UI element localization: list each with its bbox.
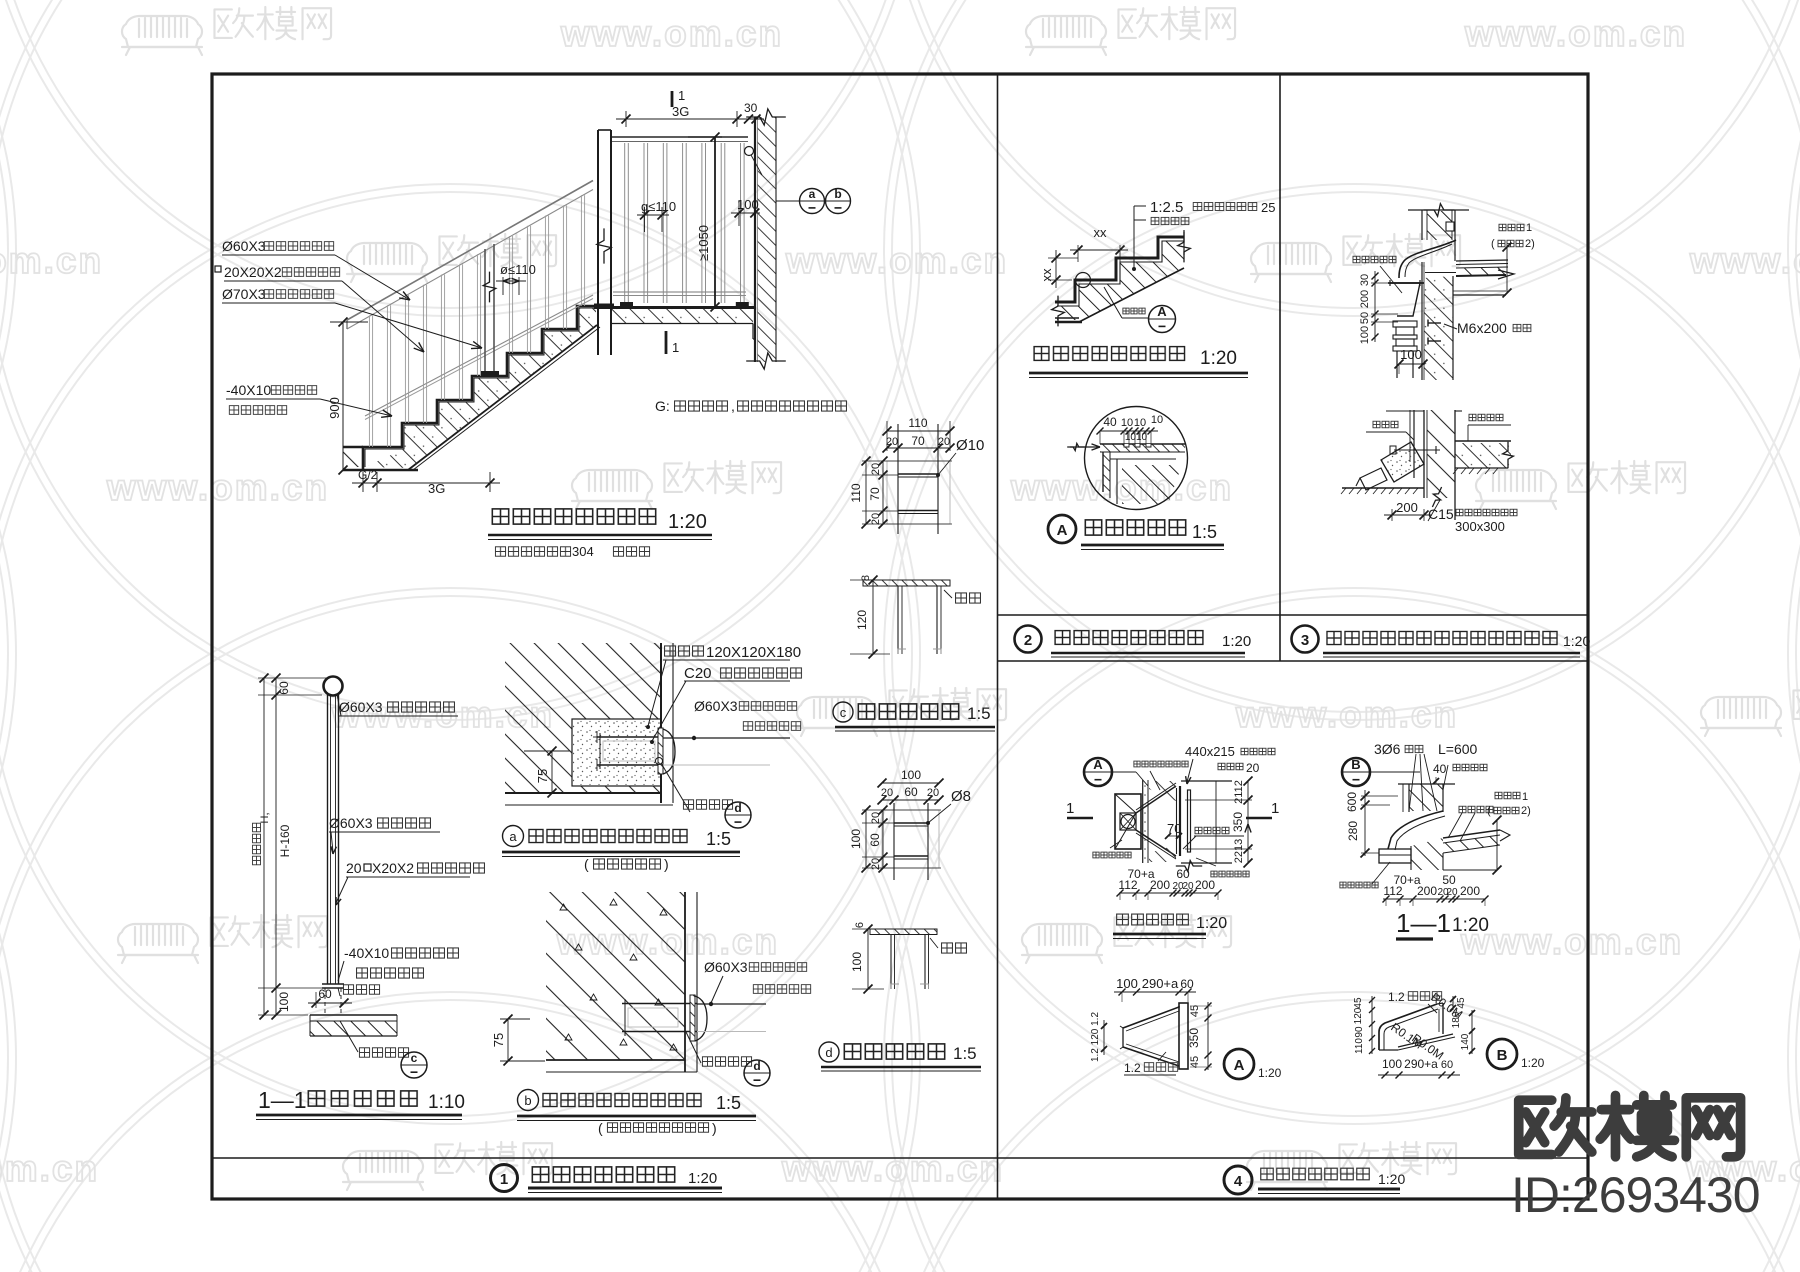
svg-text:1: 1	[1522, 791, 1528, 803]
svg-text:1.2: 1.2	[1388, 990, 1405, 1004]
svg-text:290+a: 290+a	[1142, 976, 1179, 991]
title embed detail c	[856, 701, 961, 722]
concrete marks b	[560, 904, 567, 910]
label anti-slip + bubble A	[1122, 307, 1146, 315]
label embed ref b	[686, 1032, 701, 1063]
svg-text:c: c	[840, 705, 847, 720]
svg-text:110: 110	[849, 483, 863, 502]
svg-text:Ø60X3: Ø60X3	[329, 815, 373, 831]
circle marker small	[745, 147, 754, 156]
band title 1	[491, 1165, 518, 1192]
parapet top	[1408, 209, 1469, 211]
svg-text:100: 100	[737, 197, 759, 212]
nose circle marker	[1076, 273, 1091, 288]
bubbles a b	[776, 200, 800, 202]
grate plate	[1176, 788, 1178, 854]
band title 4	[1224, 1166, 1252, 1194]
right dim chain 4	[1247, 781, 1249, 863]
bottom title band line	[212, 1157, 1588, 1159]
svg-text:1: 1	[1271, 800, 1279, 817]
svg-text:M6x200: M6x200	[1457, 320, 1507, 336]
svg-text:): )	[712, 1120, 717, 1136]
label embed ref c	[340, 1021, 358, 1052]
svg-text:200: 200	[1359, 290, 1371, 308]
svg-text:www.om.cn: www.om.cn	[1689, 240, 1800, 281]
svg-text:20: 20	[927, 787, 939, 799]
bolts M6	[1428, 322, 1441, 324]
label hopper 3	[1352, 255, 1397, 264]
svg-text:90: 90	[1354, 1026, 1365, 1038]
svg-text:L=600: L=600	[1438, 741, 1478, 757]
svg-text:a: a	[509, 829, 517, 844]
svg-text:110: 110	[1354, 1038, 1365, 1054]
dims left chain 3	[1372, 273, 1379, 280]
svg-text:1:20: 1:20	[1222, 633, 1251, 650]
label weld d	[940, 941, 968, 955]
svg-text:d: d	[825, 1045, 832, 1060]
roof1/2 label 1-1	[1494, 791, 1521, 800]
title anti-slip node	[1083, 517, 1188, 538]
svg-text:100: 100	[1382, 1057, 1402, 1071]
dim G/2 3G bottom	[362, 472, 364, 492]
tread structure soffit	[1079, 268, 1184, 322]
leader mortar labels	[1133, 206, 1135, 269]
funnel inside	[1115, 794, 1136, 813]
svg-text:www.om.cn: www.om.cn	[1460, 921, 1683, 962]
svg-text:d: d	[753, 1059, 760, 1073]
structure below	[1110, 458, 1176, 460]
mortar band	[1100, 444, 1185, 452]
svg-text:b: b	[524, 1093, 531, 1108]
svg-text:www.om.cn: www.om.cn	[785, 240, 1008, 281]
spout curve 1-1	[1388, 811, 1443, 849]
breaks detail2	[1178, 232, 1191, 263]
hopper	[1390, 283, 1420, 316]
svg-text:45: 45	[1189, 1056, 1201, 1068]
svg-text:100: 100	[849, 829, 863, 849]
svg-text:g≤110: g≤110	[641, 199, 676, 214]
svg-text:1—1: 1—1	[1396, 908, 1451, 938]
title through-wall outlet	[1115, 912, 1190, 927]
svg-text:A: A	[1157, 304, 1167, 319]
svg-text:40: 40	[1433, 762, 1447, 776]
svg-text:20: 20	[1182, 881, 1194, 892]
svg-text:100: 100	[901, 768, 921, 782]
label 20X20X2 square bar	[215, 266, 221, 272]
svg-text:1:20: 1:20	[1378, 1171, 1405, 1187]
svg-text:1:2.5: 1:2.5	[1150, 199, 1183, 216]
parapet top 1-1r	[1398, 783, 1455, 785]
svg-text:3G: 3G	[672, 104, 689, 119]
svg-text:A: A	[1234, 1057, 1245, 1074]
flight mid post	[484, 249, 486, 372]
svg-text:110: 110	[908, 416, 927, 430]
title d	[819, 1042, 839, 1062]
label weld	[954, 591, 982, 605]
svg-text:100: 100	[850, 952, 864, 972]
outlet mouth	[1379, 849, 1411, 863]
embedded channel b	[622, 1003, 697, 1005]
svg-text:4: 4	[1234, 1173, 1243, 1190]
svg-text:1:5: 1:5	[967, 704, 991, 723]
wall below roof	[1424, 276, 1453, 380]
svg-text:Ø70X3: Ø70X3	[222, 286, 266, 302]
svg-text:50: 50	[1442, 873, 1456, 887]
svg-text:H-160: H-160	[278, 824, 292, 857]
svg-text:280: 280	[1346, 821, 1360, 841]
slab 1-1	[310, 1014, 397, 1016]
svg-text:20: 20	[1446, 887, 1458, 898]
svg-text:200: 200	[1417, 884, 1437, 898]
anchor rod	[1394, 449, 1440, 451]
band title 3	[1292, 626, 1319, 653]
title a	[503, 826, 524, 847]
wall hatched	[1427, 410, 1455, 498]
bottom dim chain 4	[1119, 892, 1218, 894]
svg-text:Ø8: Ø8	[951, 788, 971, 805]
side view d	[870, 929, 937, 935]
svg-text:C20: C20	[684, 665, 712, 682]
svg-text:50: 50	[1359, 312, 1371, 324]
interior floor	[1455, 440, 1511, 442]
svg-text:): )	[664, 856, 669, 872]
section mark bottom 1	[665, 331, 668, 354]
dim 75 b	[500, 1018, 530, 1020]
svg-text:75: 75	[491, 1033, 506, 1047]
svg-text:www.om.cn: www.om.cn	[1010, 467, 1233, 508]
svg-text:G/2: G/2	[358, 468, 378, 482]
handrail tube circle	[324, 677, 343, 696]
svg-text:1.2: 1.2	[1124, 1061, 1141, 1075]
bubble A marker	[1084, 758, 1112, 786]
bubble B bottom	[1487, 1039, 1517, 1069]
dim 3G / 30 top	[671, 91, 674, 107]
svg-text:20: 20	[881, 787, 893, 799]
svg-text:(: (	[1487, 805, 1491, 817]
svg-text:350: 350	[1187, 1028, 1201, 1048]
landing bottom rail	[613, 291, 746, 293]
svg-text:www.om.cn: www.om.cn	[0, 240, 103, 281]
title c	[833, 702, 853, 722]
drawing border frame	[212, 74, 1588, 1199]
soil hatch marks	[1453, 468, 1458, 474]
pipe flange b	[690, 995, 695, 1041]
recess C20 fill	[572, 719, 661, 786]
wall under spout	[1411, 838, 1443, 870]
svg-text:(: (	[1491, 238, 1495, 250]
svg-text:100: 100	[1116, 976, 1138, 991]
title detail b	[541, 1091, 703, 1109]
svg-text:100: 100	[1359, 326, 1371, 344]
title stair tread standard	[1032, 344, 1187, 363]
title b	[518, 1090, 539, 1111]
label embed ref a + bubble d	[656, 758, 663, 765]
roof slab right	[1456, 260, 1508, 261]
svg-text:-40X10: -40X10	[226, 382, 271, 398]
title A	[1048, 515, 1076, 543]
svg-text:10: 10	[1151, 414, 1163, 426]
svg-text:1:5: 1:5	[716, 1093, 741, 1113]
svg-text:X20X2: X20X2	[372, 860, 414, 876]
svg-text:≥1050: ≥1050	[696, 225, 711, 261]
svg-text:120: 120	[1353, 1007, 1364, 1024]
svg-text:20: 20	[1246, 761, 1260, 775]
svg-text:120: 120	[855, 610, 869, 630]
svg-text:100: 100	[277, 992, 291, 1012]
svg-text:H,: H,	[259, 813, 271, 824]
top lines	[1386, 410, 1424, 412]
watermark logos	[122, 7, 331, 55]
svg-text:2): 2)	[1521, 805, 1531, 817]
svg-text:6: 6	[854, 922, 866, 928]
outlet housing	[1115, 794, 1141, 849]
band title roof drain	[1325, 629, 1559, 647]
svg-text:60: 60	[1441, 1059, 1453, 1071]
svg-text:B: B	[1497, 1047, 1508, 1064]
svg-text:A: A	[1057, 522, 1068, 539]
svg-text:140: 140	[1460, 1033, 1471, 1050]
svg-text:440x215: 440x215	[1185, 744, 1235, 759]
svg-text:2): 2)	[1525, 238, 1535, 250]
floor slab landing	[594, 306, 756, 309]
svg-text:70: 70	[911, 434, 925, 448]
svg-text:-40X10: -40X10	[344, 945, 389, 961]
svg-text:60: 60	[277, 681, 291, 695]
bottom dims 1-1	[1383, 898, 1485, 900]
svg-text:(: (	[584, 856, 589, 872]
svg-text:60: 60	[1176, 867, 1190, 881]
svg-text:600: 600	[1345, 792, 1359, 812]
elbow + casing	[1381, 442, 1424, 482]
eave drip	[1498, 270, 1514, 279]
svg-text:1:10: 1:10	[428, 1092, 465, 1113]
svg-text:75: 75	[535, 769, 550, 783]
svg-text:200: 200	[1396, 500, 1418, 515]
svg-text:290+a: 290+a	[1404, 1057, 1438, 1071]
band title through-wall outlet	[1259, 1166, 1371, 1182]
bent plate	[1379, 1004, 1437, 1050]
svg-text:120X120X180: 120X120X180	[706, 644, 801, 661]
svg-text:www.om.cn: www.om.cn	[1464, 13, 1687, 54]
stair slab soffit	[408, 325, 597, 470]
svg-text:ø≤110: ø≤110	[500, 262, 536, 277]
svg-text:(: (	[598, 1120, 603, 1136]
svg-text:www.om.cn: www.om.cn	[0, 1148, 99, 1189]
svg-text:1: 1	[678, 88, 685, 103]
svg-text:1:20: 1:20	[668, 511, 707, 533]
svg-text:1: 1	[500, 1171, 508, 1188]
band title stair railing	[530, 1164, 677, 1185]
svg-text:Ø60X3: Ø60X3	[339, 699, 383, 715]
svg-text:200: 200	[1460, 884, 1480, 898]
svg-text:180: 180	[1451, 1011, 1462, 1028]
embedded channel	[597, 736, 663, 738]
dims left 1-1	[258, 677, 330, 679]
dim >=1050	[688, 136, 722, 138]
svg-text:www.om.cn: www.om.cn	[560, 13, 783, 54]
svg-text:www.om.cn: www.om.cn	[1235, 694, 1458, 735]
plate plan	[887, 461, 950, 524]
svg-text:60: 60	[904, 785, 918, 799]
flight balusters	[368, 315, 370, 447]
svg-text:350: 350	[1231, 812, 1245, 832]
svg-text:G:: G:	[655, 398, 670, 414]
riser band	[1103, 452, 1110, 498]
svg-text:1:20: 1:20	[1521, 1056, 1545, 1070]
funnel shape A	[1123, 1006, 1179, 1028]
svg-text:d: d	[734, 801, 741, 815]
title 1-1 section	[306, 1088, 422, 1109]
svg-text:1:5: 1:5	[706, 829, 731, 849]
svg-text:1—1: 1—1	[258, 1087, 307, 1113]
svg-text:B: B	[1351, 757, 1360, 772]
landing post	[597, 130, 599, 355]
svg-text:900: 900	[327, 397, 342, 419]
flange	[322, 983, 344, 985]
gutter curve	[1399, 240, 1456, 278]
right slab lines	[1181, 780, 1232, 782]
stair slab hatch	[365, 308, 596, 468]
svg-text:xx: xx	[1094, 225, 1108, 240]
big OMW logo	[1519, 1095, 1741, 1156]
svg-text:1:20: 1:20	[1200, 348, 1237, 369]
label rain pipe	[1372, 420, 1399, 429]
svg-text:45: 45	[1456, 997, 1467, 1009]
svg-text:3: 3	[1301, 632, 1309, 649]
svg-text:Ø60X3: Ø60X3	[222, 238, 266, 254]
ground line	[1342, 487, 1424, 489]
post lines	[327, 695, 329, 984]
label waterproof	[1210, 870, 1250, 878]
svg-text:A: A	[1093, 757, 1103, 772]
svg-text:3G: 3G	[428, 481, 445, 496]
label hopper 4	[1092, 851, 1132, 859]
dim 900	[330, 321, 368, 323]
svg-text:25: 25	[1261, 200, 1275, 215]
svg-text:b: b	[834, 187, 841, 201]
svg-text:60: 60	[868, 833, 882, 847]
svg-text:Ø60X3: Ø60X3	[694, 698, 738, 714]
hopper label 1-1	[1339, 881, 1379, 889]
title stair railing elevation	[490, 506, 658, 527]
label bolt fix	[1194, 826, 1230, 835]
band title interior stair tread	[1053, 628, 1205, 647]
svg-text:1: 1	[1066, 800, 1074, 817]
svg-text:Ø10: Ø10	[956, 437, 984, 454]
svg-text:1: 1	[672, 340, 679, 355]
svg-text:1:20: 1:20	[1258, 1066, 1282, 1080]
svg-text:30: 30	[1359, 274, 1371, 286]
sealant label mid	[1458, 805, 1494, 814]
wall section (hatched)	[757, 117, 776, 362]
svg-text:www.om.cn: www.om.cn	[106, 467, 329, 508]
wall strips	[1143, 780, 1148, 863]
svg-text:20X20X2: 20X20X2	[224, 264, 282, 280]
left pointer	[1070, 446, 1100, 448]
down pipe	[1396, 351, 1398, 378]
flight bottom rail	[365, 295, 593, 416]
spout outlet	[1360, 468, 1387, 490]
interior floor label	[1468, 413, 1504, 422]
rebar leaders	[1409, 754, 1416, 811]
title embed detail d	[842, 1041, 947, 1062]
side view c	[863, 580, 950, 586]
vertical divider center	[997, 74, 999, 1199]
svg-text:300x300: 300x300	[1455, 519, 1505, 534]
title detail a	[527, 827, 689, 845]
title band lines right top	[998, 614, 1589, 616]
svg-text:xx: xx	[1039, 268, 1054, 282]
label reserve hole 120X120X180	[663, 644, 705, 658]
svg-text:1.2 120 1.2: 1.2 120 1.2	[1090, 1012, 1101, 1062]
wall hatch	[505, 643, 661, 793]
pipe couplings	[1393, 321, 1417, 327]
svg-text:,: ,	[731, 398, 735, 414]
vertical divider right columns	[1279, 74, 1281, 661]
svg-text:c: c	[411, 1051, 418, 1065]
ground floor slab	[343, 446, 363, 449]
svg-text:10: 10	[1134, 417, 1146, 429]
svg-text:Ø60X3: Ø60X3	[704, 959, 748, 975]
bubble A bottom	[1224, 1049, 1254, 1079]
pipe vertical	[1413, 410, 1415, 478]
svg-text:a: a	[809, 187, 816, 201]
svg-text:2: 2	[1024, 632, 1032, 649]
landing handrail	[611, 136, 748, 138]
svg-text:2213: 2213	[1233, 839, 1245, 863]
svg-text:www.om.cn: www.om.cn	[781, 1148, 1004, 1189]
grooves	[1124, 444, 1129, 447]
tread hatch	[1057, 241, 1184, 320]
label roof1/2	[1498, 223, 1525, 232]
svg-text:70: 70	[868, 487, 882, 501]
band title 2	[1015, 626, 1042, 653]
wall face b	[684, 892, 686, 1072]
svg-text:1:20: 1:20	[1196, 915, 1227, 932]
svg-text:1: 1	[1526, 222, 1532, 234]
svg-text:304: 304	[572, 544, 594, 559]
svg-text:1:20: 1:20	[1563, 633, 1590, 649]
svg-text:45: 45	[1353, 997, 1364, 1009]
roof right 1-1	[1443, 830, 1500, 838]
svg-text:1:20: 1:20	[688, 1170, 717, 1187]
pipe flange	[658, 728, 663, 774]
svg-text:40: 40	[1103, 415, 1117, 429]
flight handrail	[347, 181, 593, 321]
stair steps profile	[363, 306, 594, 470]
svg-text:1:20: 1:20	[1452, 915, 1489, 936]
landing balusters	[624, 143, 626, 303]
svg-text:3Ø6: 3Ø6	[1374, 741, 1401, 757]
svg-text:1:5: 1:5	[953, 1044, 977, 1063]
svg-text:30: 30	[744, 101, 758, 115]
svg-text:45: 45	[1189, 1005, 1201, 1017]
svg-text:1:5: 1:5	[1192, 522, 1217, 542]
svg-text:20: 20	[346, 860, 362, 876]
svg-text:ID:2693430: ID:2693430	[1511, 1167, 1760, 1223]
dim 75 a	[524, 750, 570, 752]
svg-text:200: 200	[1195, 878, 1215, 892]
svg-text:200: 200	[1150, 878, 1170, 892]
